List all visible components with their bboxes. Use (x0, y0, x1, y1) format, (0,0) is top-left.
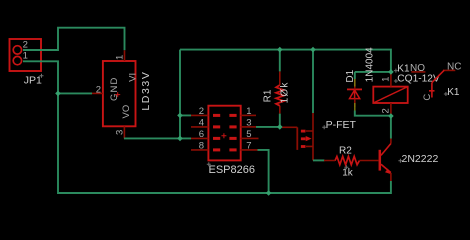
wire ESP.3 to gate node (256, 126, 280, 128)
svg-text:JP1: JP1 (24, 74, 42, 86)
node junction at (58,93.4) (55, 91, 61, 97)
node junction at (180,138.4) (177, 136, 183, 142)
svg-text:K1: K1 (447, 87, 460, 98)
svg-text:1N4004: 1N4004 (364, 47, 375, 82)
wire overlap olive bottom (354, 103, 356, 111)
svg-text:R1: R1 (262, 89, 273, 102)
wire VCC to P-FET source (312, 50, 314, 113)
node junction at (390.9,71.9) (388, 69, 394, 75)
node junction at (313,49.6) (310, 47, 316, 53)
svg-text:LD33V: LD33V (140, 71, 152, 111)
wire relay pin2 node to collector (390, 116, 392, 139)
svg-text:1: 1 (23, 51, 28, 62)
relay contact K1 (411, 61, 461, 100)
pin ESP.2 (191, 114, 208, 116)
svg-text:R2: R2 (339, 146, 352, 157)
node junction at (268.6,192.7) (266, 190, 272, 196)
pin LD33V.2 (92, 92, 103, 94)
pin LD33V.3 (123, 126, 125, 138)
svg-text:GND: GND (109, 77, 120, 101)
svg-text:NC: NC (447, 61, 461, 72)
wire JP1.2 to LD33V.VI (23, 28, 125, 51)
wire P-FET drain to R2 (313, 159, 325, 161)
relay coil K1 (373, 63, 440, 116)
transistor Q P-FET (282, 113, 357, 160)
pin ESP.8 (191, 149, 208, 151)
wire D1 anode to relay pin2 node (355, 111, 391, 116)
wire overlap olive top (354, 79, 356, 87)
svg-text:D1: D1 (345, 69, 356, 82)
svg-text:VO: VO (121, 105, 132, 119)
resistor R1 (262, 50, 290, 127)
node junction at (180,115.4) (177, 113, 183, 119)
module ESP8266 (199, 106, 255, 176)
svg-text:C: C (422, 94, 433, 101)
pin ESP.1 (240, 114, 256, 116)
pin ESP.6 (191, 137, 208, 139)
svg-text:VI: VI (127, 73, 138, 82)
svg-text:P-FET: P-FET (326, 119, 357, 131)
wire D1 cathode to VCC node (355, 72, 391, 79)
regulator U LD33V (96, 55, 152, 135)
pin LD33V.1 (124, 50, 126, 61)
diode D1 1N4004 (347, 76, 362, 107)
resistor R2 (324, 146, 378, 179)
pin ESP.5 (240, 137, 258, 139)
pin ESP.7 (240, 149, 257, 151)
svg-text:2N2222: 2N2222 (402, 153, 439, 165)
svg-text:1Øk: 1Øk (279, 81, 290, 103)
node junction at (279.8,49.6) (277, 47, 283, 53)
pin ESP.4 (191, 126, 208, 128)
svg-text:1: 1 (381, 77, 392, 82)
wire LD33V.VO to ESP8266 left column (124, 50, 191, 139)
node junction at (279.8,126.9) (277, 124, 283, 130)
wire JP1.1 down to ground rail (23, 61, 391, 193)
wire ESP.7 to ground rail (258, 150, 269, 193)
wire to LD33V.GND (58, 92, 92, 94)
pin ESP.3 (240, 126, 256, 128)
wire VCC top rail (180, 50, 391, 72)
transistor Q2 2N2222 (380, 139, 439, 182)
svg-text:CQ1-12V: CQ1-12V (397, 74, 440, 85)
svg-text:ESP8266: ESP8266 (209, 164, 255, 176)
svg-text:1k: 1k (342, 167, 354, 178)
connector JP1 (10, 39, 44, 86)
svg-text:2: 2 (380, 108, 391, 113)
node junction at (390.9,116) (388, 113, 394, 119)
